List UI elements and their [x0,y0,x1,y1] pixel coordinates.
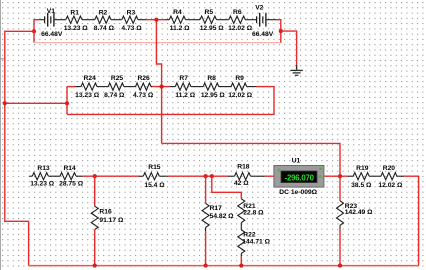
wire: middle rail from node A down to horizontal run [33,31,35,42]
wire: V2 positive terminal to node B [276,20,280,43]
node J junction (R17 top) [204,174,208,178]
wire: second-row fork vertical at x=67 [66,87,68,115]
svg-text:R5: R5 [205,9,214,16]
svg-text:R17: R17 [210,205,223,212]
svg-text:8.74 Ω: 8.74 Ω [104,92,125,99]
svg-text:11.2 Ω: 11.2 Ω [170,25,191,32]
svg-text:R26: R26 [137,75,150,82]
wire: node A to left rail, down and across to R13 branch [5,31,34,265]
svg-text:66.48V: 66.48V [41,31,63,38]
svg-text:13.23 Ω: 13.23 Ω [30,181,55,188]
node: R23 bottom junction [338,264,342,268]
svg-text:54.82 Ω: 54.82 Ω [210,213,235,220]
node G junction (R26/R7/vertical drop) [160,85,164,89]
svg-text:28.75 Ω: 28.75 Ω [59,181,84,188]
svg-text:R15: R15 [148,164,161,171]
wire: node H down to R16 [94,176,96,206]
wire: right rail (R20 output down to bottom rail) [404,176,419,265]
resistor R4 [165,9,200,32]
wire: second-row bypass (node D to R9 right end) [67,87,274,115]
svg-text:R20: R20 [383,165,396,172]
resistor R24 [75,75,108,99]
svg-text:4.73 Ω: 4.73 Ω [133,92,154,99]
wire: node E drop across to meter input node F [162,143,340,176]
node F junction (meter out / drop wire / R23) [338,174,342,178]
battery V2 [252,5,276,38]
svg-text:22.8 Ω: 22.8 Ω [243,209,264,216]
svg-text:V2: V2 [255,5,263,12]
node B junction (V2+ / ground stem / middle rail) [279,29,283,33]
resistor R9 [228,75,256,99]
node: R22 bottom junction [239,264,243,268]
wire: R17 bottom to bottom rail [205,231,207,265]
svg-text:R14: R14 [63,165,76,172]
svg-text:R1: R1 [70,9,79,16]
wire: R18 to meter U1 input [265,175,274,177]
wire: meter U1 output to R19 through node F [324,175,348,177]
svg-text:R2: R2 [99,9,108,16]
svg-text:DC 1e-009Ω: DC 1e-009Ω [279,189,317,196]
wire: R16 bottom to bottom rail [94,230,96,266]
resistor R7 [170,75,203,99]
wire: R22 bottom to bottom rail [240,256,242,265]
svg-text:4.73 Ω: 4.73 Ω [121,25,142,32]
ground [290,65,302,75]
svg-text:91.17 Ω: 91.17 Ω [99,217,124,224]
node A junction (V1- / left rail / middle rail) [32,29,36,33]
wire: R15 to R18 segment through nodes J and K [168,175,228,177]
node C junction on left rail [3,101,7,105]
svg-text:12.95 Ω: 12.95 Ω [201,92,226,99]
resistor R17 (vertical) [202,203,234,231]
resistor R26 [133,75,154,99]
svg-text:8.74 Ω: 8.74 Ω [94,25,115,32]
resistor R8 [201,75,231,99]
wire: node J down to R17 [205,176,207,203]
wire: top row segment R3 to R4 through node E [146,19,165,21]
svg-text:42 Ω: 42 Ω [234,180,249,187]
node: R17 bottom junction [204,264,208,268]
svg-text:R19: R19 [356,165,369,172]
svg-text:12.02 Ω: 12.02 Ω [228,25,253,32]
resistor R1 [64,9,95,32]
wire: node K jog down to R21 top [212,176,242,199]
wire: R3/R4 midpoint tap (node E) down with jog [156,20,161,144]
resistor R6 [228,9,256,32]
multimeter U1 [274,158,324,197]
node H junction (R16 top) [93,174,97,178]
svg-text:R25: R25 [111,75,124,82]
wire: second row segment R26 to R7 through node G [152,86,170,88]
svg-text:R7: R7 [179,75,188,82]
resistor R20 [378,165,404,189]
svg-text:142.49 Ω: 142.49 Ω [345,209,373,216]
node E junction [154,18,158,22]
resistor R5 [200,9,229,32]
svg-text:13.23 Ω: 13.23 Ω [75,92,100,99]
svg-text:R13: R13 [37,165,50,172]
wire: R23 bottom to bottom rail [339,229,341,266]
resistor R2 [94,9,122,32]
svg-text:R9: R9 [235,75,244,82]
resistor R22 (vertical) [238,230,271,257]
svg-text:-296.070: -296.070 [285,174,315,183]
svg-text:R4: R4 [173,9,182,16]
svg-text:15.4 Ω: 15.4 Ω [144,182,165,189]
resistor R18 [227,163,264,187]
svg-text:V1: V1 [47,8,55,15]
resistor R14 [59,165,84,187]
wire: node B to ground [281,31,297,65]
svg-text:13.23 Ω: 13.23 Ω [64,25,89,32]
svg-text:R16: R16 [99,209,112,216]
worksheet left border [0,0,4,270]
svg-text:R22: R22 [243,231,256,238]
node K junction (R21 branch) [210,174,214,178]
resistor R21 (vertical) [238,199,264,230]
svg-text:R8: R8 [207,75,216,82]
svg-text:66.48V: 66.48V [252,31,274,38]
resistor R25 [104,75,135,99]
svg-text:12.95 Ω: 12.95 Ω [200,25,225,32]
svg-text:R24: R24 [84,75,97,82]
resistor R3 [121,9,146,32]
svg-text:11.2 Ω: 11.2 Ω [175,92,196,99]
svg-text:R18: R18 [237,163,250,170]
wire: node F down to R23 [339,176,341,201]
svg-text:R6: R6 [233,9,242,16]
battery V1 [40,8,66,38]
node: R16 bottom junction [93,264,97,268]
wire: left rail tap to second-row fork (node C) [5,102,67,104]
svg-text:12.02 Ω: 12.02 Ω [228,92,253,99]
svg-text:12.02 Ω: 12.02 Ω [378,182,403,189]
svg-text:U1: U1 [292,158,301,165]
resistor R15 [139,164,168,189]
resistor R16 (vertical) [91,206,124,229]
resistor R23 (vertical) [337,201,374,229]
svg-text:144.71 Ω: 144.71 Ω [242,239,270,246]
node D junction (fork of R24 row / bypass wire) [65,101,69,105]
resistor R19 [347,165,381,189]
svg-text:R3: R3 [127,9,136,16]
wire: bottom rail [29,265,419,267]
svg-text:38.5 Ω: 38.5 Ω [351,182,372,189]
wire: fork to R24 lead [67,86,76,88]
resistor R13 [29,165,60,187]
wire: R14 to R15 segment through node H [83,175,139,177]
wire: V1 negative terminal to node A [34,20,40,32]
wire: middle rail horizontal (node A to node B, light) [34,42,281,44]
